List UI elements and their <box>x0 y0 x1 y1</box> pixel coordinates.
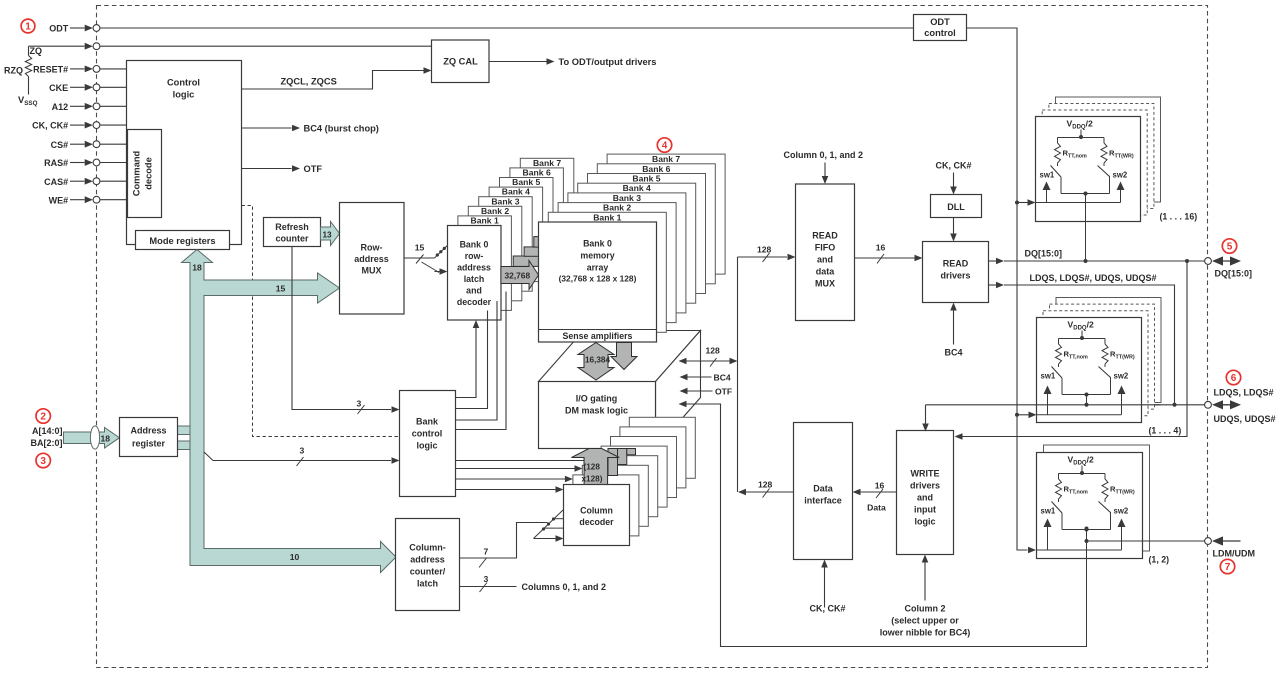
svg-text:LDQS, LDQS#: LDQS, LDQS# <box>1214 388 1274 398</box>
svg-text:logic: logic <box>173 90 195 100</box>
svg-text:decoder: decoder <box>457 297 492 307</box>
wire 16 Data WRITE drivers to data interface <box>861 491 897 493</box>
wire 128 bus to READ FIFO <box>738 256 788 258</box>
svg-text:RZQ: RZQ <box>4 66 23 76</box>
termination cell 2 stacked outlines <box>1056 298 1161 403</box>
control logic block <box>127 61 242 245</box>
svg-text:WE#: WE# <box>49 195 69 205</box>
svg-text:sw2: sw2 <box>1114 372 1129 381</box>
svg-text:15: 15 <box>415 243 425 253</box>
svg-text:3: 3 <box>40 456 46 467</box>
ZQ CAL block <box>432 40 490 83</box>
svg-text:Data: Data <box>813 484 834 494</box>
svg-text:sw1: sw1 <box>1041 507 1056 516</box>
svg-text:CS#: CS# <box>51 140 69 150</box>
svg-text:4: 4 <box>662 141 668 152</box>
wire from ODT control down right side to termination cells <box>967 28 1028 550</box>
svg-text:sw1: sw1 <box>1041 372 1056 381</box>
wires bank control logic to column decoders <box>456 460 584 462</box>
svg-text:BC4: BC4 <box>714 373 731 383</box>
svg-text:Bank 3: Bank 3 <box>613 193 641 203</box>
svg-text:CK, CK#: CK, CK# <box>809 604 845 614</box>
red circled number 2 <box>36 409 50 423</box>
svg-text:lower nibble for BC4): lower nibble for BC4) <box>880 628 971 638</box>
svg-text:A[14:0]: A[14:0] <box>32 426 63 436</box>
svg-text:Refresh: Refresh <box>275 222 309 232</box>
svg-text:Row-: Row- <box>361 243 383 253</box>
termination cell 3 box for LDM/UDM with RTT resistors and switches <box>1037 453 1143 559</box>
svg-text:counter: counter <box>275 234 309 244</box>
READ drivers block <box>923 242 989 303</box>
svg-text:3: 3 <box>300 446 305 456</box>
termination cell 1 stacked outlines <box>1056 97 1161 202</box>
wire DQ[15:0] from READ drivers to port <box>989 260 997 262</box>
svg-text:MUX: MUX <box>362 266 382 276</box>
termination cell 3 stacked outline <box>1044 445 1150 551</box>
wire 16 READ FIFO to READ drivers <box>855 257 915 259</box>
wire DQS strobe line through cell to WRITE drivers <box>926 404 1205 406</box>
svg-text:Bank 2: Bank 2 <box>603 203 631 213</box>
wire 15 from row-address MUX to bank row-address latches with fan-out <box>404 257 435 259</box>
port DQ[15:0] with pad circle and bidirectional arrows <box>1205 258 1212 265</box>
wire 7 column-address counter to column decoder with fan-out <box>460 523 548 559</box>
svg-text:address: address <box>354 254 389 264</box>
svg-text:LDM/UDM: LDM/UDM <box>1213 549 1256 559</box>
svg-text:ZQ: ZQ <box>30 46 43 56</box>
bidirectional 128 bus I/O gating to vertical 128 bus <box>687 360 730 362</box>
gray 32768 arrows of rear bank layers (visible slivers) <box>513 256 539 266</box>
red circled number 7 <box>1220 559 1234 573</box>
svg-text:7: 7 <box>484 547 489 557</box>
svg-text:interface: interface <box>804 496 842 506</box>
svg-text:OTF: OTF <box>304 164 323 174</box>
svg-text:3: 3 <box>357 399 362 409</box>
svg-text:(1 . . . 4): (1 . . . 4) <box>1149 426 1182 436</box>
row-address MUX block <box>340 203 405 315</box>
svg-text:input: input <box>914 505 936 515</box>
svg-text:To ODT/output drivers: To ODT/output drivers <box>559 57 657 67</box>
svg-text:16: 16 <box>875 481 885 491</box>
svg-text:Column 2: Column 2 <box>904 604 945 614</box>
svg-text:CKE: CKE <box>49 83 68 93</box>
svg-text:1: 1 <box>25 22 31 33</box>
svg-text:128: 128 <box>706 346 721 356</box>
svg-text:latch: latch <box>417 579 438 589</box>
svg-text:logic: logic <box>416 441 437 451</box>
wire cell 1 to DQ line <box>1085 194 1087 262</box>
I/O gating DM mask logic 3D block <box>539 331 701 382</box>
svg-text:Column 0, 1, and 2: Column 0, 1, and 2 <box>784 150 864 160</box>
svg-text:and: and <box>917 493 933 503</box>
svg-text:Bank 7: Bank 7 <box>533 158 561 168</box>
svg-text:18: 18 <box>101 434 111 444</box>
wire ZQCL ZQCS from control logic to ZQ CAL <box>242 71 424 90</box>
termination cell 1 box for DQ with RTT resistors and switches <box>1036 117 1141 222</box>
svg-text:2: 2 <box>40 412 46 423</box>
svg-text:3: 3 <box>484 574 489 584</box>
svg-text:Bank 3: Bank 3 <box>491 196 519 206</box>
svg-text:ZQ CAL: ZQ CAL <box>443 57 478 67</box>
svg-text:Control: Control <box>167 78 200 88</box>
svg-text:x128): x128) <box>582 475 603 484</box>
svg-text:CAS#: CAS# <box>44 177 68 187</box>
svg-text:decoder: decoder <box>579 517 614 527</box>
svg-text:BC4 (burst chop): BC4 (burst chop) <box>304 124 379 134</box>
svg-text:MUX: MUX <box>815 279 835 289</box>
svg-text:drivers: drivers <box>910 481 940 491</box>
red circled number 6 <box>1226 370 1240 384</box>
svg-text:control: control <box>924 28 956 38</box>
teal 13 arrow refresh counter to row-address MUX <box>321 222 340 246</box>
svg-text:RAS#: RAS# <box>44 158 68 168</box>
svg-text:(select upper or: (select upper or <box>891 616 959 626</box>
svg-text:READ: READ <box>812 231 838 241</box>
column-address counter latch block <box>396 519 460 611</box>
svg-text:counter/: counter/ <box>410 567 446 577</box>
bank 0 row-address latch and decoder block <box>448 226 502 321</box>
svg-text:sw2: sw2 <box>1114 507 1129 516</box>
svg-text:Bank 2: Bank 2 <box>481 206 509 216</box>
red circled number 5 <box>1222 239 1236 253</box>
svg-text:Sense amplifiers: Sense amplifiers <box>563 331 633 341</box>
svg-text:row-: row- <box>465 251 484 261</box>
svg-text:data: data <box>816 267 836 277</box>
svg-text:16: 16 <box>876 243 886 253</box>
svg-text:BA[2:0]: BA[2:0] <box>30 438 62 448</box>
svg-text:latch: latch <box>464 274 485 284</box>
svg-text:7: 7 <box>1225 562 1231 573</box>
svg-text:Bank 4: Bank 4 <box>623 183 651 193</box>
svg-text:Bank 6: Bank 6 <box>523 168 551 178</box>
svg-text:Bank 7: Bank 7 <box>652 154 680 164</box>
svg-text:Bank 1: Bank 1 <box>471 216 499 226</box>
svg-text:Data: Data <box>867 503 886 513</box>
svg-text:READ: READ <box>943 259 969 269</box>
svg-text:Bank 5: Bank 5 <box>632 174 660 184</box>
wire BC4 burst chop output <box>242 127 292 129</box>
svg-text:OTF: OTF <box>715 387 732 397</box>
svg-text:BC4: BC4 <box>944 348 962 358</box>
svg-text:ODT: ODT <box>49 24 69 34</box>
svg-text:DQ[15:0]: DQ[15:0] <box>1215 269 1253 279</box>
vertical 128 data bus <box>737 257 739 492</box>
gray 32768 bus arrow latch to memory array <box>501 261 539 290</box>
svg-text:(1 . . . 16): (1 . . . 16) <box>1160 212 1198 222</box>
svg-text:register: register <box>132 439 166 449</box>
svg-text:array: array <box>587 263 609 273</box>
svg-text:(32,768 x 128 x 128): (32,768 x 128 x 128) <box>559 274 637 284</box>
DQS wire overlay across cell 2 <box>1037 404 1161 406</box>
svg-text:Bank 4: Bank 4 <box>502 187 530 197</box>
data interface block <box>794 423 853 560</box>
mode registers block <box>136 231 230 250</box>
svg-text:Columns 0, 1, and 2: Columns 0, 1, and 2 <box>522 582 607 592</box>
DM mask wire from LDM/UDM cell to I/O gating <box>687 404 1088 647</box>
wire DQ feedback to WRITE drivers <box>963 261 1188 437</box>
wire 3 columns 0 1 and 2 <box>460 586 517 588</box>
red circled number 1 <box>21 19 35 33</box>
wire 128 data interface to 128 bus <box>746 491 794 493</box>
svg-text:WRITE: WRITE <box>911 469 940 479</box>
wire cell 2 to DQS line <box>1086 395 1088 405</box>
wire 3 from address bus to bank control logic <box>204 452 391 461</box>
svg-text:10: 10 <box>290 552 300 562</box>
svg-text:Mode registers: Mode registers <box>149 236 215 246</box>
port LDQS UDQS with pad circle and bidirectional arrows <box>1205 401 1212 408</box>
wire cell 3 node to LDM line <box>1086 529 1088 647</box>
svg-text:6: 6 <box>1231 373 1237 384</box>
svg-text:16,384: 16,384 <box>585 356 610 365</box>
teal input arrow A[14:0] BA[2:0] with 18 label <box>64 428 120 449</box>
svg-text:sw1: sw1 <box>1040 171 1055 180</box>
svg-text:Bank 0: Bank 0 <box>583 239 612 249</box>
termination cell 2 box for DQS with RTT resistors and switches <box>1037 318 1142 423</box>
svg-text:Bank 5: Bank 5 <box>512 177 540 187</box>
svg-text:LDQS, LDQS#, UDQS, UDQS#: LDQS, LDQS#, UDQS, UDQS# <box>1030 273 1157 283</box>
svg-text:I/O gating: I/O gating <box>576 394 618 404</box>
svg-text:logic: logic <box>914 517 935 527</box>
svg-text:ZQCL, ZQCS: ZQCL, ZQCS <box>281 77 337 87</box>
command decode block <box>128 130 162 218</box>
svg-text:address: address <box>410 555 445 565</box>
svg-text:sw2: sw2 <box>1113 171 1128 180</box>
svg-text:A12: A12 <box>52 102 69 112</box>
wires bank control logic up to bank latch stacks <box>456 326 477 398</box>
gray 16384 rear arrow <box>611 343 637 370</box>
svg-text:32,768: 32,768 <box>505 270 531 280</box>
svg-text:CK, CK#: CK, CK# <box>32 121 68 131</box>
svg-text:5: 5 <box>1227 242 1233 253</box>
svg-text:128: 128 <box>758 480 773 490</box>
wire 3 from refresh counter to bank control logic <box>292 247 391 410</box>
ODT control block <box>914 15 967 41</box>
teal address bus with 18 up-arrow, 15 branch to row-address MUX, 10 branch to column-address counter <box>182 250 397 573</box>
dashed wire control logic to bank control logic <box>242 206 399 437</box>
DLL block <box>931 195 982 218</box>
svg-text:address: address <box>457 263 491 273</box>
gray 128x128 bus arrow column decoder to I/O gating <box>572 449 620 486</box>
red circled number 4 <box>657 138 671 152</box>
bank control logic block <box>400 391 456 497</box>
svg-text:Bank 1: Bank 1 <box>593 212 621 222</box>
svg-text:(128: (128 <box>584 463 601 472</box>
stacked bank 1-7 column decoder boxes <box>629 417 695 478</box>
svg-text:18: 18 <box>192 263 202 273</box>
wire BC4 into I/O gating <box>688 376 712 378</box>
refresh counter block <box>264 218 321 247</box>
svg-text:Bank 6: Bank 6 <box>642 164 670 174</box>
gray 128x128 rear arrow pieces <box>608 449 618 476</box>
svg-text:Bank: Bank <box>416 417 439 427</box>
wire OTF into I/O gating <box>688 390 713 392</box>
wire to ODT/output drivers <box>489 61 547 63</box>
svg-text:CK, CK#: CK, CK# <box>935 161 971 171</box>
svg-text:UDQS, UDQS#: UDQS, UDQS# <box>1214 414 1276 424</box>
wire LDQS UDQS from READ drivers <box>989 284 997 286</box>
bank 0 memory array block with sense amplifiers strip <box>539 222 657 342</box>
READ FIFO and data MUX block <box>796 184 855 321</box>
svg-text:Bank 0: Bank 0 <box>460 240 489 250</box>
svg-text:DLL: DLL <box>947 202 965 212</box>
svg-text:(1, 2): (1, 2) <box>1149 555 1170 565</box>
column decoder block <box>564 485 630 546</box>
stacked bank 1-7 memory array boxes <box>607 154 725 274</box>
svg-text:decode: decode <box>144 157 154 190</box>
svg-text:RESET#: RESET# <box>33 65 68 75</box>
address register block <box>120 418 178 457</box>
svg-text:DM mask logic: DM mask logic <box>565 406 628 416</box>
gray 16384 double arrow sense amplifiers to I/O gating <box>578 343 614 381</box>
svg-text:and: and <box>466 286 482 296</box>
svg-text:DQ[15:0]: DQ[15:0] <box>1025 249 1063 259</box>
wire DLL to READ drivers <box>953 218 955 235</box>
svg-text:control: control <box>412 429 443 439</box>
svg-text:Column: Column <box>580 506 613 516</box>
RZQ resistor and VSSQ <box>28 46 30 55</box>
svg-text:memory: memory <box>580 251 614 261</box>
red circled number 3 <box>36 453 50 467</box>
svg-text:Command: Command <box>132 150 142 196</box>
svg-text:drivers: drivers <box>940 271 970 281</box>
svg-text:13: 13 <box>323 231 333 240</box>
svg-text:15: 15 <box>276 284 286 294</box>
stacked bank 1-7 row-address latch boxes <box>520 158 574 253</box>
svg-text:Address: Address <box>130 426 166 436</box>
svg-text:and: and <box>817 255 833 265</box>
wire OTF output <box>242 168 292 170</box>
WRITE drivers and input logic block <box>897 431 954 555</box>
svg-text:FIFO: FIFO <box>815 243 836 253</box>
svg-text:Column-: Column- <box>409 543 446 553</box>
svg-text:ODT: ODT <box>930 17 950 27</box>
teal stubs from address register to bus <box>178 426 191 435</box>
port LDM/UDM with pad circle and input arrow <box>1205 538 1212 545</box>
wire LDM/UDM from port to cell 3 <box>1087 540 1205 542</box>
